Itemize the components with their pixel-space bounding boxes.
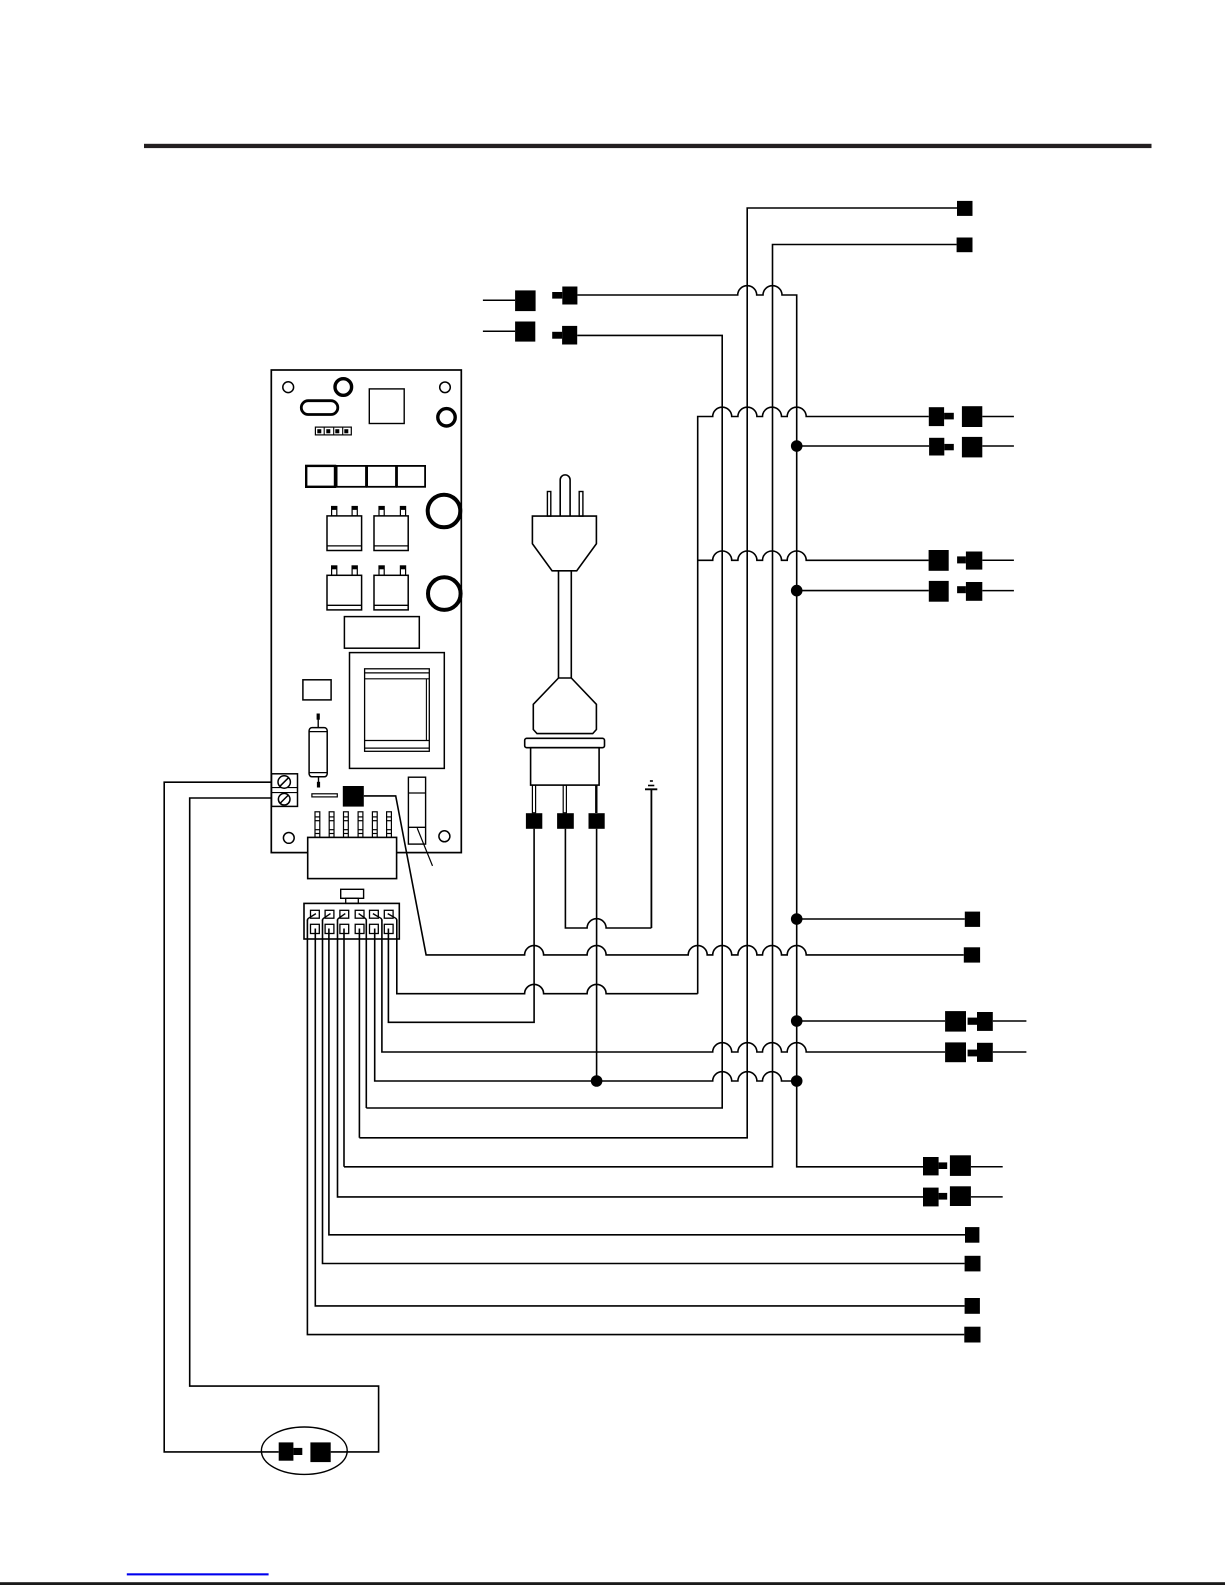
- wire plug pin8 vertical: [365, 920, 367, 1109]
- wire node to pair C1: [797, 1020, 945, 1022]
- relay K2: [337, 466, 366, 487]
- capacitor C5 axial: [309, 714, 327, 788]
- fuse pointer line: [417, 828, 432, 866]
- plug body: [532, 516, 596, 571]
- electrolytic capacitor CE2: [428, 577, 461, 610]
- plug right prong: [579, 492, 583, 517]
- terminal square S2: [957, 238, 973, 253]
- connector pair B2: [966, 582, 982, 601]
- plug left prong: [547, 492, 550, 517]
- receptacle body: [531, 748, 600, 785]
- cable plug J2: [304, 889, 399, 939]
- wire plug pin9 to node: [375, 929, 797, 1082]
- wire plug pin5 to pair D2: [338, 920, 924, 1197]
- capacitor C2: [374, 507, 408, 551]
- connector pair C1: [977, 1012, 993, 1031]
- connector pair D2: [923, 1188, 939, 1207]
- relay K4: [397, 466, 425, 487]
- wire connector L2 to bus: [366, 335, 722, 1108]
- transformer terminal block: [344, 617, 419, 649]
- terminal lug P2: [557, 813, 574, 829]
- receptacle pin 1: [532, 785, 535, 813]
- terminal block TB1 with screws: [272, 774, 298, 807]
- receptacle pin 3: [595, 785, 597, 813]
- wire square S1 feed: [359, 208, 957, 1138]
- electrolytic capacitor CE1: [428, 495, 461, 528]
- wire node to square S3: [797, 918, 965, 920]
- terminal square S1: [957, 201, 973, 216]
- transformer T1: [350, 653, 445, 769]
- wire node to pair B2: [797, 590, 929, 592]
- wire square S2 feed: [344, 245, 957, 1167]
- wire terminal1 to plug E: [164, 782, 279, 1452]
- wire bus to pair A1: [698, 407, 929, 994]
- connector pair L1: [483, 299, 515, 301]
- wire connector L1 to pair D1: [577, 286, 923, 1167]
- connector pair L2: [483, 330, 515, 332]
- PCB board outline: [271, 370, 461, 853]
- node B2: [791, 585, 803, 597]
- terminal square S6: [965, 1256, 981, 1272]
- connector pair D1: [923, 1157, 939, 1175]
- connector pair B1: [966, 552, 982, 570]
- jumper header JP1: [315, 427, 351, 435]
- wire plug pin2 to square S7: [315, 929, 964, 1306]
- wire U2 to square S4: [364, 796, 964, 955]
- connector pair C2: [977, 1043, 993, 1062]
- top rule: [144, 144, 1152, 148]
- receptacle pin 2: [563, 785, 566, 813]
- fuse F1: [408, 777, 425, 844]
- power cable: [558, 571, 560, 678]
- terminal square S8: [964, 1327, 980, 1343]
- terminal lug P1: [526, 813, 542, 829]
- mounting hole top-right: [440, 382, 451, 393]
- mounting hole bottom-left: [283, 833, 294, 844]
- relay K3: [367, 466, 396, 487]
- node S3: [791, 913, 803, 925]
- capacitor C1: [327, 507, 362, 551]
- wire plug pin6 vertical: [343, 929, 345, 1167]
- standoff hole right: [438, 409, 455, 426]
- cord connector body: [533, 678, 596, 734]
- receptacle flange: [525, 738, 605, 747]
- node prong3: [591, 1075, 603, 1087]
- black component U2: [343, 786, 364, 807]
- standoff hole top-middle: [335, 379, 352, 396]
- wire plug pin1 to square S8: [307, 920, 964, 1335]
- wire plug pin10 to pair C2: [382, 920, 945, 1053]
- mounting hole bottom-right: [439, 831, 450, 842]
- connector pair E: [279, 1442, 294, 1460]
- connector pair A1: [929, 407, 944, 426]
- wire prong2 to ground: [565, 829, 651, 928]
- footer link underline: [127, 1573, 269, 1575]
- connector J1 housing: [308, 837, 397, 878]
- node A2: [791, 440, 803, 452]
- terminal lug P3: [589, 813, 605, 829]
- wire bus to pair B1: [698, 551, 929, 560]
- resistor R1 bar: [312, 794, 337, 797]
- relay K1: [306, 466, 335, 487]
- header J1 pins: [315, 812, 391, 838]
- wire terminal2 to plug E: [190, 798, 379, 1452]
- wire prong3 vertical: [596, 829, 598, 1081]
- wire plug pin3 to square S6: [323, 920, 965, 1264]
- plug E ellipse: [261, 1427, 347, 1474]
- terminal square S7: [965, 1298, 980, 1314]
- plug center ground prong: [560, 475, 570, 516]
- terminal square S5: [965, 1227, 979, 1243]
- wire prong1 to plug pin11: [388, 829, 534, 1023]
- bottom rule: [0, 1582, 1225, 1585]
- terminal square S4: [964, 947, 980, 962]
- capacitor C3: [327, 566, 362, 610]
- crystal Y1: [301, 401, 338, 415]
- wire plug pin7 vertical: [358, 929, 360, 1138]
- node C1: [791, 1015, 803, 1027]
- node bus-796 lower: [791, 1075, 803, 1087]
- IC U1: [369, 389, 404, 424]
- earth ground symbol: [645, 781, 657, 928]
- wire node to pair A2: [797, 445, 929, 447]
- wire plug pin4 to square S5: [329, 929, 965, 1235]
- connector pair A2: [929, 438, 944, 456]
- mounting hole top-left: [283, 382, 294, 393]
- terminal square S3: [965, 912, 980, 927]
- wire plug pin12 to bus: [397, 920, 698, 994]
- capacitor C4: [374, 566, 408, 610]
- relay K5: [303, 680, 331, 700]
